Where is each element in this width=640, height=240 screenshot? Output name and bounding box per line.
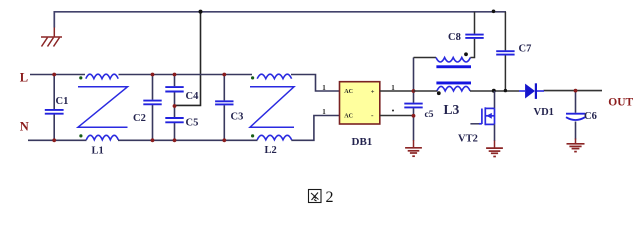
- transformer L3: [414, 39, 475, 117]
- svg-text:VT2: VT2: [458, 134, 478, 145]
- wire secondary output line: [414, 90, 603, 92]
- svg-text:AC: AC: [344, 114, 353, 120]
- capacitor C5 (filter at DB1 output): [404, 89, 433, 120]
- svg-text:OUT: OUT: [608, 96, 633, 108]
- svg-text:L2: L2: [265, 145, 277, 156]
- inductor L2 common-mode choke: [250, 74, 294, 156]
- capacitor C5 (Y-cap): [165, 104, 198, 142]
- wire rail drop to C4/C5 midpoint: [176, 12, 201, 106]
- wire rail left drop: [53, 11, 55, 28]
- wire DB1 right pins: [380, 91, 414, 116]
- svg-text:C1: C1: [56, 96, 69, 107]
- svg-text:C7: C7: [519, 44, 532, 55]
- node C7 junction: [504, 89, 507, 92]
- wire N line: [28, 116, 340, 141]
- svg-text:N: N: [20, 119, 29, 133]
- ground below VT2: [486, 141, 503, 157]
- svg-text:C3: C3: [231, 112, 244, 123]
- svg-text:VD1: VD1: [534, 107, 554, 118]
- inductor L1 common-mode choke: [78, 74, 128, 156]
- svg-text:C4: C4: [186, 91, 200, 102]
- svg-text:C5: C5: [186, 118, 199, 129]
- capacitor C4: [165, 73, 199, 106]
- svg-text:L3: L3: [444, 102, 460, 117]
- svg-text:C6: C6: [584, 111, 597, 122]
- svg-text:C8: C8: [448, 32, 461, 43]
- transistor VT2 (MOSFET): [458, 91, 495, 145]
- svg-text:1: 1: [322, 84, 326, 92]
- diode VD1: [519, 83, 554, 118]
- caption 图 2: [309, 189, 334, 206]
- capacitor C7: [496, 12, 531, 91]
- svg-text:DB1: DB1: [352, 136, 373, 148]
- svg-text:+: +: [371, 88, 375, 95]
- wire node vertical (DB1 + / C5 / ground): [413, 58, 415, 141]
- ground chassis earth (top-left): [41, 27, 62, 47]
- capacitor C2: [133, 73, 162, 143]
- bridge rectifier DB1: [322, 82, 395, 148]
- svg-text:1: 1: [322, 108, 326, 116]
- ground below C6: [567, 139, 585, 152]
- wire L line: [30, 75, 340, 92]
- wire top ground rail: [54, 11, 506, 13]
- svg-text:2: 2: [326, 189, 334, 206]
- svg-text:L: L: [20, 70, 28, 84]
- svg-text:C2: C2: [133, 113, 146, 124]
- svg-text:c5: c5: [425, 110, 434, 120]
- ground below C5/DB1: [405, 140, 422, 156]
- svg-text:AC: AC: [344, 89, 353, 95]
- capacitor C8 (snubber): [448, 12, 484, 43]
- node VT2 drain junction: [492, 89, 496, 93]
- node rail junction at x=493.5: [492, 10, 496, 14]
- node rail junction at x=200: [199, 10, 203, 14]
- capacitor C6 (output, polarized): [566, 89, 597, 140]
- capacitor C3: [215, 73, 243, 143]
- capacitor C1: [45, 73, 69, 143]
- svg-text:L1: L1: [92, 146, 104, 157]
